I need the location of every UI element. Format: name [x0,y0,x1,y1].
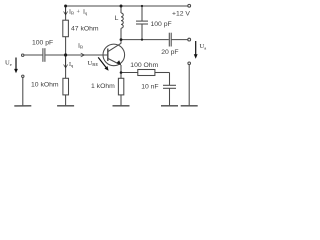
svg-text:47 kOhm: 47 kOhm [71,26,99,33]
svg-text:100 Ohm: 100 Ohm [130,62,158,69]
svg-text:10 kOhm: 10 kOhm [31,81,59,88]
svg-text:e: e [10,62,12,67]
svg-text:B: B [71,11,74,16]
svg-text:20 pF: 20 pF [161,49,178,56]
svg-text:100 pF: 100 pF [32,40,53,47]
svg-text:B: B [80,45,83,50]
svg-text:L: L [115,15,119,22]
svg-text:BE: BE [92,62,98,67]
svg-text:1 kOhm: 1 kOhm [91,83,115,90]
svg-text:10 nF: 10 nF [141,84,158,91]
svg-text:a: a [204,46,206,51]
svg-text:+12 V: +12 V [172,10,190,17]
svg-text:100 pF: 100 pF [151,21,172,28]
